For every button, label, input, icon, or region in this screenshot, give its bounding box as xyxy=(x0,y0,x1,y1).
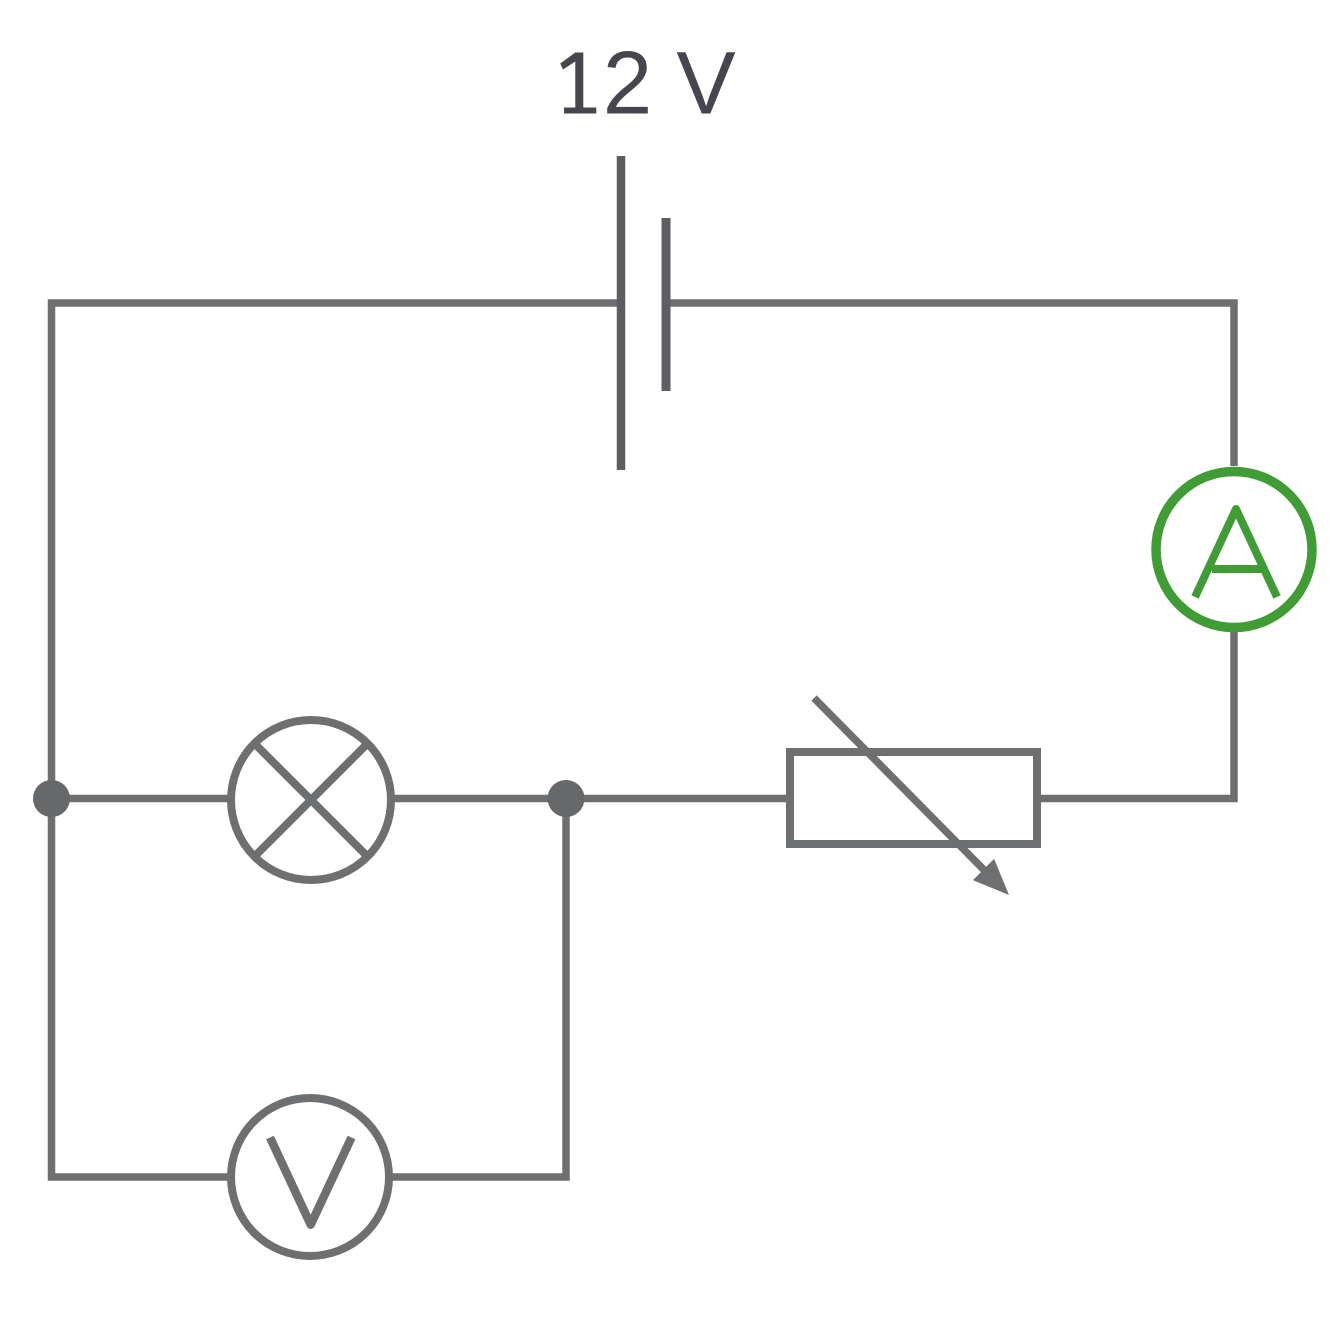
svg-text:2: 2 xyxy=(603,33,653,133)
svg-text:V: V xyxy=(676,33,735,133)
